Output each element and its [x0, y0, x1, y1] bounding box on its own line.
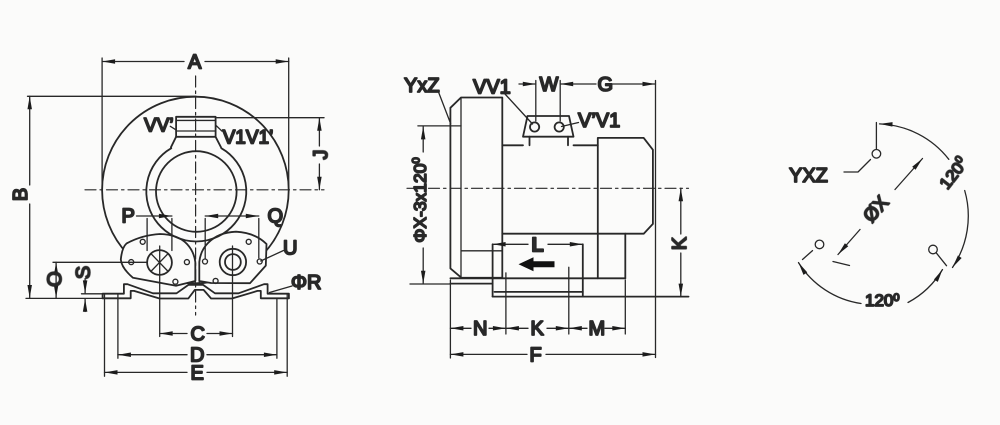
diameter arrow OX [833, 159, 923, 266]
wire: front view horizontal centerline [85, 189, 324, 191]
motor outline [502, 138, 653, 278]
base plate outer contour (front view) [103, 284, 289, 298]
svg-text:L: L [532, 235, 544, 257]
svg-text:ΦX-3x1200: ΦX-3x1200 [410, 157, 430, 242]
cover foot pad bottom [450, 283, 492, 285]
svg-text:YXZ: YXZ [789, 165, 828, 187]
bolt hole top [872, 150, 881, 159]
dimension K bottom [506, 327, 569, 329]
dimension P [137, 216, 172, 251]
dimension Q [205, 216, 259, 259]
svg-text:VV’: VV’ [144, 116, 174, 137]
cover plate inner edge line [460, 98, 462, 278]
bolt hole bottom right [929, 245, 938, 254]
left port circle with X mark [147, 250, 172, 275]
dimension M [569, 280, 626, 334]
dimension K right side [680, 188, 682, 296]
dimension A [102, 58, 289, 190]
dimension F [450, 353, 655, 355]
bolt holes right flange [203, 239, 263, 283]
svg-text:W: W [540, 74, 559, 96]
center gap lines between foot flanges [195, 278, 199, 284]
label YXZ with leader [844, 160, 871, 173]
svg-text:V’V1: V’V1 [578, 110, 620, 132]
main body top edge [502, 144, 598, 146]
wire: front view vertical centerline [195, 76, 197, 315]
svg-text:S: S [73, 266, 95, 279]
cover foot step line [462, 250, 503, 252]
label V'V1 with leader [562, 123, 579, 127]
label VV1 with leader [505, 94, 533, 124]
inlet boss ring outer circle [146, 148, 246, 241]
inlet bore circle [156, 151, 237, 232]
svg-text:Q: Q [268, 206, 284, 228]
radial tick bottom-right hole [936, 253, 946, 266]
svg-text:U: U [283, 238, 297, 260]
label U with leader [261, 251, 284, 262]
stub bolt hole left [530, 122, 539, 131]
svg-text:O: O [44, 271, 66, 287]
bolt holes left flange [129, 239, 190, 284]
svg-text:J: J [310, 150, 332, 160]
muffler box bottom lines [495, 291, 583, 293]
svg-text:1200: 1200 [935, 154, 972, 193]
svg-text:YxZ: YxZ [404, 75, 440, 97]
port center marks (side view) [506, 267, 569, 334]
right port circles [220, 249, 246, 275]
svg-text:B: B [10, 188, 32, 201]
label PhiR with leader [270, 286, 293, 293]
svg-text:M: M [589, 318, 606, 340]
dimension J [217, 118, 324, 190]
label VV' with leader [170, 126, 176, 130]
cover plate outline [450, 98, 502, 278]
dimension B [26, 96, 196, 298]
muffler box left edge [492, 244, 494, 296]
top pipe flange block with thread lines [171, 117, 221, 148]
svg-text:N: N [473, 318, 487, 340]
dimension S [84, 279, 86, 312]
dimension G [560, 81, 655, 358]
dimension W [519, 81, 560, 122]
dimension N [450, 280, 506, 358]
svg-text:A: A [188, 52, 202, 74]
base plate inner contour (front view) [103, 290, 289, 299]
housing circle (blower body front view) [102, 97, 289, 284]
svg-text:G: G [598, 74, 614, 96]
radial tick bottom-left hole [803, 251, 813, 260]
svg-text:ØX: ØX [860, 192, 894, 227]
svg-text:P: P [122, 206, 135, 228]
svg-text:F: F [530, 345, 542, 367]
dimension E [105, 294, 288, 377]
flow direction bold arrow [519, 257, 555, 271]
dimension D [118, 295, 277, 359]
right foot flange plate [199, 232, 266, 284]
wire: side view horizontal centerline [407, 187, 689, 189]
svg-text:K: K [531, 318, 545, 340]
dimension PhiX-3x120 [410, 126, 461, 284]
label YxZ with leader [439, 92, 451, 124]
dimension O [53, 262, 147, 298]
dimension C [160, 246, 233, 337]
bolt hole bottom left [815, 240, 824, 249]
label V1V1' with leader [216, 126, 222, 132]
dimension L [493, 243, 583, 245]
svg-text:1200: 1200 [865, 291, 900, 310]
svg-text:K: K [669, 236, 691, 250]
svg-text:ΦR: ΦR [291, 272, 321, 294]
stub bolt hole right [555, 122, 564, 131]
motor foot edge [624, 234, 626, 279]
svg-text:E: E [191, 363, 204, 385]
svg-text:C: C [191, 324, 205, 346]
top flange stub (side view) [523, 116, 574, 145]
svg-text:VV1: VV1 [473, 77, 511, 99]
left foot flange plate [121, 234, 196, 286]
muffler box right edge [582, 244, 584, 296]
svg-text:V1V1’: V1V1’ [223, 127, 274, 148]
tick above top hole [875, 123, 877, 150]
bottom line of body and feet [450, 277, 625, 279]
arc 120 bottom [799, 263, 943, 304]
arc 120 right [880, 124, 969, 268]
